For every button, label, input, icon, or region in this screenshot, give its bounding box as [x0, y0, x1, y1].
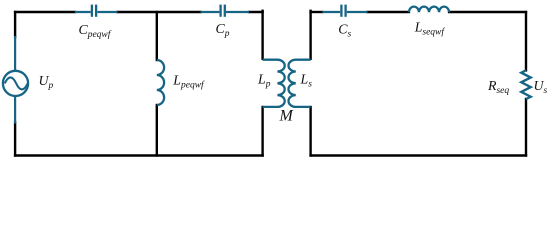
svg-text:M: M: [279, 108, 295, 125]
